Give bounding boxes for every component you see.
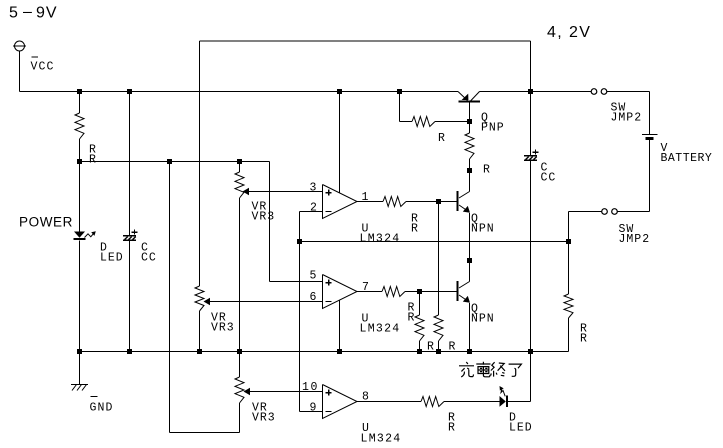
junction (469.5,121.5) <box>467 119 472 124</box>
resistor R1 <box>79 92 81 114</box>
junction (339.5,91.5) <box>337 89 342 94</box>
transistor Q1 PNP <box>458 92 468 101</box>
junction (129.5,91.5) <box>127 89 132 94</box>
svg-text:5: 5 <box>310 270 318 283</box>
resistor R5 <box>382 287 405 297</box>
svg-text:LED: LED <box>509 422 533 435</box>
wire VCC to C1 <box>129 92 131 236</box>
svg-text:CC: CC <box>141 252 157 265</box>
wire R5 to Q3 base <box>405 291 457 293</box>
wire VR1 wiper to pin 3 <box>249 191 323 193</box>
svg-text:R: R <box>449 341 457 354</box>
svg-text:LM324: LM324 <box>360 233 401 246</box>
svg-text:R: R <box>408 312 416 325</box>
wire C1 to GND rail <box>129 241 131 351</box>
wire GND stub <box>79 352 81 385</box>
resistor R9 <box>421 397 444 407</box>
junction (129.5,351.5) <box>127 349 132 354</box>
junction (530.5,351.5) <box>528 349 533 354</box>
svg-text:JMP2: JMP2 <box>619 233 651 246</box>
op-amp U1b LM324 <box>323 275 358 309</box>
wire R9 to D2 <box>444 401 500 403</box>
wire D1 to GND rail <box>79 241 81 352</box>
junction (299.5,241.5) <box>297 239 302 244</box>
svg-text:10: 10 <box>302 381 319 394</box>
wire VCC rail right of Q1 <box>480 91 592 93</box>
junction (419.5,291.5) <box>417 289 422 294</box>
wire R2 to Q2 base <box>406 201 457 203</box>
wire U1a output to R4 <box>438 202 440 316</box>
junction (469.5,170.5) <box>467 168 472 173</box>
label GND <box>91 396 98 398</box>
svg-text:1: 1 <box>362 191 370 204</box>
svg-text:R: R <box>483 164 491 177</box>
wire VR3 wiper to pin 10 <box>250 391 323 393</box>
junction (419.5,351.5) <box>417 349 422 354</box>
wire U1a V+ pin <box>339 92 341 193</box>
label VCC <box>32 56 39 58</box>
junction (339.5,351.5) <box>337 349 342 354</box>
wire top 4.2V feedback <box>200 40 531 42</box>
svg-text:NPN: NPN <box>471 313 495 326</box>
svg-text:R: R <box>580 333 588 346</box>
capacitor C2 CC <box>524 155 537 157</box>
svg-text:–: – <box>23 4 32 21</box>
svg-text:NPN: NPN <box>471 223 495 236</box>
resistor R2 <box>383 197 406 207</box>
svg-text:VR3: VR3 <box>211 322 235 335</box>
junction (79.5,351.5) <box>77 349 82 354</box>
junction (469.5,260.5) <box>467 258 472 263</box>
svg-text:9: 9 <box>310 402 318 415</box>
svg-text:R: R <box>411 223 419 236</box>
wire VCC stub <box>19 51 21 92</box>
svg-text:VR3: VR3 <box>252 211 276 224</box>
wire battery minus <box>649 140 651 212</box>
wire pin 8 output <box>357 401 421 403</box>
wire pin 1 output <box>357 201 383 203</box>
wire pin 7 output <box>357 291 382 293</box>
ground symbol <box>71 384 88 386</box>
svg-text:4, 2V: 4, 2V <box>547 24 591 41</box>
svg-text:3: 3 <box>310 182 318 195</box>
resistor R4 <box>434 315 443 341</box>
wire battery minus rail <box>300 241 569 243</box>
resistor R8 current sense <box>568 242 570 295</box>
junction (239.5,161.5) <box>237 159 242 164</box>
svg-text:LM324: LM324 <box>360 323 401 336</box>
svg-text:POWER: POWER <box>19 215 73 230</box>
junction (469.5,351.5) <box>467 349 472 354</box>
jumper SW JMP2 <box>602 209 608 215</box>
op-amp U1c LM324 <box>323 385 358 419</box>
wire divider rail <box>80 161 270 163</box>
wire D2 cathode to GND rail <box>508 401 531 403</box>
junction (399.5,91.5) <box>397 89 402 94</box>
battery V <box>642 134 658 136</box>
wire R1 to LED D1 <box>79 162 81 232</box>
svg-text:R: R <box>89 154 97 167</box>
junction (79.5,161.5) <box>77 159 82 164</box>
svg-text:LED: LED <box>100 252 124 265</box>
wire GND rail <box>80 351 569 353</box>
svg-text:BATTERY: BATTERY <box>661 152 713 165</box>
op-amp U1a LM324 <box>323 185 358 219</box>
svg-text:PNP: PNP <box>481 122 505 135</box>
junction (79.5,91.5) <box>77 89 82 94</box>
wire U1b V- pin <box>339 300 341 352</box>
annotation charge-complete (kanji) <box>459 362 521 377</box>
wire JMP2 to sense node <box>569 211 602 213</box>
junction (239.5,351.5) <box>237 349 242 354</box>
power symbol VCC <box>15 41 25 51</box>
transistor Q3 NPN <box>457 281 459 301</box>
resistor R3 base pull-up <box>399 92 401 122</box>
junction (169.5,161.5) <box>167 159 172 164</box>
variable resistor VR3 <box>239 352 241 378</box>
junction (530.5,91.5) <box>528 89 533 94</box>
svg-text:7: 7 <box>362 281 370 294</box>
transistor Q2 NPN <box>457 191 459 211</box>
variable resistor VR1 <box>239 162 241 173</box>
junction (438.5,351.5) <box>436 349 441 354</box>
LED D2 charge complete <box>500 396 506 407</box>
jumper SW JMP1 <box>591 89 597 95</box>
svg-text:6: 6 <box>310 291 318 304</box>
wire divider to pin 5 <box>269 162 271 282</box>
resistor R6 base to GND <box>419 292 421 316</box>
wire VR2 wiper to pin 6 <box>210 301 323 303</box>
svg-text:R: R <box>438 132 446 145</box>
wire JMP1 to battery plus <box>607 91 650 93</box>
wire divider to VR3 loop <box>169 162 171 433</box>
resistor R7 Q1 base drive <box>469 122 471 134</box>
LED D1 POWER <box>74 232 85 238</box>
svg-text:GND: GND <box>90 402 114 415</box>
junction (438.5,201.5) <box>436 199 441 204</box>
wire pin 9 <box>300 411 323 413</box>
svg-text:VCC: VCC <box>31 61 55 74</box>
svg-text:JMP2: JMP2 <box>611 112 643 125</box>
wire VCC rail <box>20 91 459 93</box>
svg-text:R: R <box>427 341 435 354</box>
svg-text:LM324: LM324 <box>361 433 402 446</box>
wire C2 to GND rail <box>530 161 532 351</box>
svg-text:5: 5 <box>9 5 18 22</box>
capacitor C1 CC <box>123 235 136 237</box>
svg-text:VR3: VR3 <box>252 412 276 425</box>
svg-text:CC: CC <box>541 172 557 185</box>
svg-text:2: 2 <box>310 202 318 215</box>
variable resistor VR2 <box>195 286 204 311</box>
junction (568.5,241.5) <box>566 239 571 244</box>
svg-text:R: R <box>448 422 456 435</box>
wire VCC to C2 <box>530 92 532 156</box>
svg-text:9V: 9V <box>36 5 58 22</box>
wire pin 2 feedback <box>300 211 323 213</box>
junction (199.5,351.5) <box>197 349 202 354</box>
